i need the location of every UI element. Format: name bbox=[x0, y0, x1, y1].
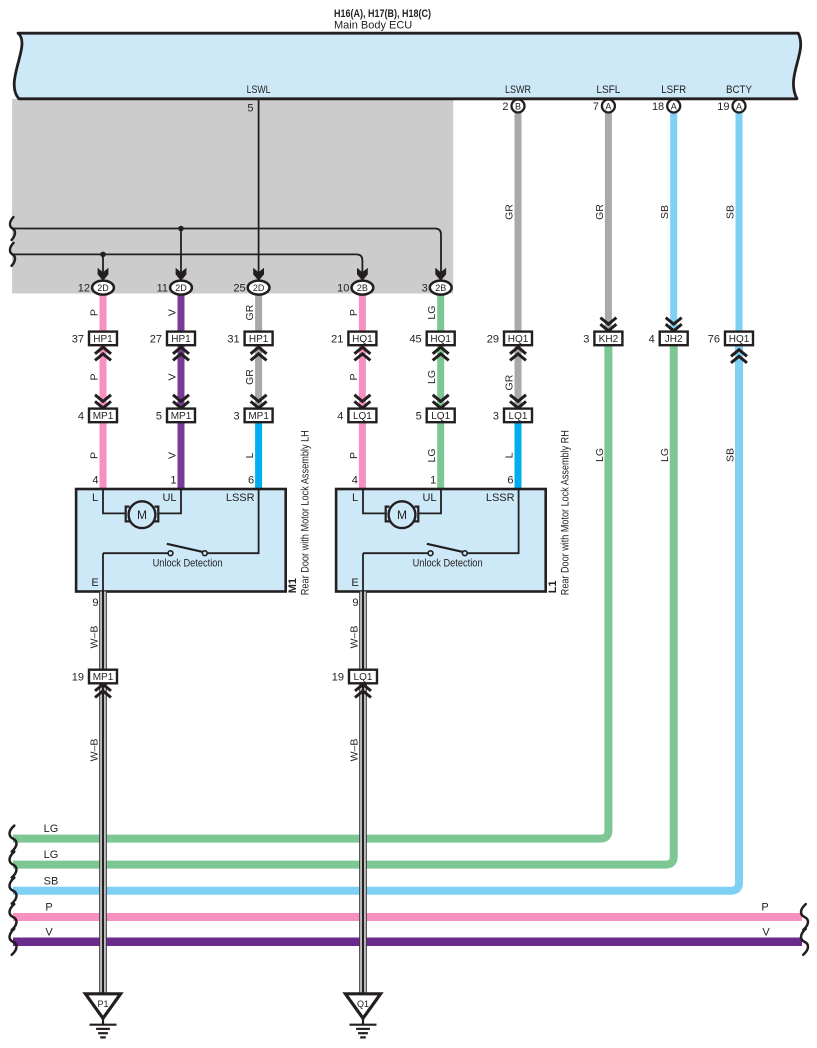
svg-text:Rear Door with Motor Lock Asse: Rear Door with Motor Lock Assembly LH bbox=[300, 430, 312, 595]
svg-text:HQ1: HQ1 bbox=[508, 334, 529, 345]
ground P1 bbox=[85, 994, 120, 1019]
wire GR LSFL bbox=[605, 110, 612, 332]
svg-text:Unlock Detection: Unlock Detection bbox=[413, 558, 483, 570]
wire L LSWR seg3 bbox=[515, 422, 522, 489]
svg-text:29: 29 bbox=[487, 333, 499, 345]
svg-text:A: A bbox=[605, 101, 611, 111]
svg-text:5: 5 bbox=[247, 103, 253, 115]
svg-text:HQ1: HQ1 bbox=[430, 334, 451, 345]
svg-text:2D: 2D bbox=[97, 283, 109, 293]
rear door with motor lock assembly RH (L1) bbox=[336, 489, 546, 592]
svg-text:GR: GR bbox=[594, 204, 606, 220]
svg-text:21: 21 bbox=[331, 333, 343, 345]
LSWL lead bbox=[258, 99, 260, 273]
svg-text:V: V bbox=[762, 926, 770, 938]
connector 45 HQ1 bbox=[427, 332, 455, 346]
arrow into oval x=258.6 bbox=[253, 268, 264, 281]
connector 5 LQ1 bbox=[433, 395, 449, 408]
svg-text:2B: 2B bbox=[435, 283, 446, 293]
svg-text:L: L bbox=[92, 492, 98, 504]
pin circle 2-B LSWR bbox=[512, 100, 525, 113]
svg-text:LG: LG bbox=[594, 448, 606, 462]
svg-text:19: 19 bbox=[717, 101, 729, 113]
svg-text:A: A bbox=[736, 101, 742, 111]
wire GR col3 seg1 bbox=[255, 291, 262, 332]
svg-text:B: B bbox=[515, 101, 521, 111]
svg-text:MP1: MP1 bbox=[248, 411, 269, 422]
svg-text:19: 19 bbox=[72, 672, 84, 684]
svg-text:P: P bbox=[348, 309, 360, 316]
svg-text:Main Body ECU: Main Body ECU bbox=[334, 20, 412, 32]
wire LG col5 seg1 bbox=[437, 291, 444, 332]
connector 76 HQ1 bbox=[725, 332, 753, 346]
W-B wire RH upper bbox=[359, 592, 366, 670]
torn mark left y=864.6 bbox=[10, 852, 17, 878]
connector 31 HP1 bbox=[245, 332, 273, 346]
torn mark right P bbox=[801, 904, 808, 930]
gray internal-harness region bbox=[12, 99, 453, 294]
svg-text:5: 5 bbox=[156, 410, 162, 422]
svg-text:LQ1: LQ1 bbox=[431, 411, 450, 422]
svg-text:LG: LG bbox=[426, 370, 438, 384]
connector 19 LQ1 bbox=[349, 670, 377, 684]
bus line 1 bbox=[13, 229, 441, 274]
svg-text:Unlock Detection: Unlock Detection bbox=[153, 558, 223, 570]
svg-text:L: L bbox=[504, 452, 516, 458]
svg-text:H16(A), H17(B), H18(C): H16(A), H17(B), H18(C) bbox=[334, 8, 431, 20]
svg-text:GR: GR bbox=[244, 304, 256, 320]
svg-text:Rear Door with Motor Lock Asse: Rear Door with Motor Lock Assembly RH bbox=[560, 430, 572, 595]
svg-text:LG: LG bbox=[426, 306, 438, 320]
wire SB BCTY seg1 bbox=[736, 110, 743, 332]
svg-text:37: 37 bbox=[72, 333, 84, 345]
svg-text:P: P bbox=[761, 902, 768, 914]
torn mark left y=890.7 bbox=[10, 878, 17, 904]
svg-text:UL: UL bbox=[422, 492, 436, 504]
wire P col4 seg2 bbox=[359, 345, 366, 408]
svg-text:2D: 2D bbox=[175, 283, 187, 293]
svg-text:P: P bbox=[348, 373, 360, 380]
svg-text:76: 76 bbox=[708, 333, 720, 345]
svg-text:LG: LG bbox=[44, 823, 59, 835]
torn mark right V bbox=[801, 929, 808, 955]
svg-text:BCTY: BCTY bbox=[726, 84, 753, 96]
connector oval 11-2D bbox=[170, 281, 192, 295]
wire P col4 seg1 bbox=[359, 291, 366, 332]
svg-text:P: P bbox=[89, 373, 101, 380]
pin circle 7-A LSFL bbox=[602, 100, 615, 113]
svg-text:4: 4 bbox=[78, 410, 84, 422]
wire LG col5 seg3 bbox=[437, 422, 444, 489]
bus line 2 bbox=[13, 254, 362, 273]
connector 5 MP1 bbox=[173, 395, 189, 408]
svg-text:W–B: W–B bbox=[89, 626, 101, 649]
svg-text:6: 6 bbox=[507, 474, 513, 486]
svg-text:SB: SB bbox=[659, 205, 671, 219]
svg-text:HP1: HP1 bbox=[171, 334, 191, 345]
svg-text:1: 1 bbox=[430, 474, 436, 486]
svg-text:19: 19 bbox=[332, 672, 344, 684]
wire LG from JH2 to left edge bbox=[13, 345, 674, 864]
svg-text:3: 3 bbox=[493, 410, 499, 422]
connector oval 10-2B bbox=[352, 281, 374, 295]
svg-text:L1: L1 bbox=[547, 580, 559, 593]
svg-text:12: 12 bbox=[78, 282, 90, 294]
connector 37 HP1 bbox=[89, 332, 117, 346]
svg-text:LG: LG bbox=[659, 448, 671, 462]
wire V col2 seg1 bbox=[178, 291, 185, 332]
svg-text:LG: LG bbox=[426, 448, 438, 462]
wire P col4 seg3 bbox=[359, 422, 366, 489]
svg-text:V: V bbox=[45, 926, 53, 938]
rear door with motor lock assembly LH (M1) bbox=[76, 489, 286, 592]
torn mark line 2 bbox=[10, 243, 15, 266]
wire GR LSWR seg1 bbox=[515, 110, 522, 332]
svg-text:GR: GR bbox=[244, 369, 256, 385]
svg-text:Q1: Q1 bbox=[357, 999, 369, 1009]
connector oval 3-2B bbox=[430, 281, 452, 295]
svg-text:9: 9 bbox=[352, 597, 358, 609]
connector 4 LQ1 bbox=[354, 395, 370, 408]
svg-text:LSSR: LSSR bbox=[226, 492, 255, 504]
ground Q1 bbox=[345, 994, 380, 1019]
svg-text:P: P bbox=[348, 452, 360, 459]
svg-text:LSFR: LSFR bbox=[661, 84, 686, 96]
torn mark left y=838.6 bbox=[10, 826, 17, 852]
wire GR LSWR seg2 bbox=[515, 345, 522, 408]
svg-text:W–B: W–B bbox=[349, 626, 361, 649]
drop to 11-2D bbox=[180, 229, 182, 274]
svg-text:HP1: HP1 bbox=[249, 334, 269, 345]
pin circle 19-A BCTY bbox=[733, 100, 746, 113]
svg-text:LQ1: LQ1 bbox=[354, 672, 373, 683]
W-B wire LH lower bbox=[99, 683, 106, 994]
ECU H16/H17/H18 Main Body ECU band bbox=[14, 33, 801, 99]
connector 3 KH2 bbox=[600, 318, 616, 331]
pin circle 18-A LSFR bbox=[667, 100, 680, 113]
junction on line 2 bbox=[100, 252, 106, 258]
svg-text:LSWL: LSWL bbox=[247, 84, 271, 96]
svg-text:27: 27 bbox=[150, 333, 162, 345]
svg-text:4: 4 bbox=[649, 333, 655, 345]
svg-text:4: 4 bbox=[337, 410, 343, 422]
svg-text:LSFL: LSFL bbox=[596, 84, 620, 96]
svg-text:M: M bbox=[397, 508, 407, 522]
connector 4 JH2 bbox=[666, 318, 682, 331]
connector 3 LQ1 bbox=[510, 395, 526, 408]
wire P bottom bbox=[13, 913, 802, 921]
svg-text:UL: UL bbox=[162, 492, 176, 504]
svg-text:3: 3 bbox=[233, 410, 239, 422]
svg-text:V: V bbox=[167, 452, 179, 459]
wire LG col5 seg2 bbox=[437, 345, 444, 408]
connector 4 MP1 bbox=[95, 395, 111, 408]
svg-text:HQ1: HQ1 bbox=[729, 334, 750, 345]
svg-text:45: 45 bbox=[409, 333, 421, 345]
svg-text:V: V bbox=[167, 309, 179, 316]
wire V bottom bbox=[13, 938, 802, 947]
arrow into oval x=362.4 bbox=[357, 268, 368, 281]
arrow into oval x=181 bbox=[176, 268, 187, 281]
svg-text:P: P bbox=[89, 309, 101, 316]
wire V col2 seg3 bbox=[178, 422, 185, 489]
svg-text:10: 10 bbox=[337, 282, 349, 294]
svg-text:L: L bbox=[352, 492, 358, 504]
torn mark left y=941.8 bbox=[10, 929, 17, 955]
svg-text:SB: SB bbox=[44, 875, 59, 887]
svg-text:5: 5 bbox=[416, 410, 422, 422]
svg-text:3: 3 bbox=[583, 333, 589, 345]
connector 3 MP1 bbox=[251, 395, 267, 408]
W-B wire LH upper bbox=[99, 592, 106, 670]
connector oval 25-2D bbox=[248, 281, 270, 295]
svg-text:4: 4 bbox=[92, 474, 98, 486]
svg-text:P: P bbox=[45, 902, 52, 914]
wire P col1 seg2 bbox=[100, 345, 107, 408]
arrow into oval x=103 bbox=[98, 268, 109, 281]
svg-text:W–B: W–B bbox=[89, 739, 101, 762]
wire L col3 seg3 bbox=[255, 422, 262, 489]
svg-text:3: 3 bbox=[422, 282, 428, 294]
connector 27 HP1 bbox=[167, 332, 195, 346]
svg-text:25: 25 bbox=[233, 282, 245, 294]
svg-text:A: A bbox=[671, 101, 677, 111]
svg-text:9: 9 bbox=[92, 597, 98, 609]
svg-text:2B: 2B bbox=[357, 283, 368, 293]
svg-text:HP1: HP1 bbox=[93, 334, 113, 345]
svg-text:L: L bbox=[244, 452, 256, 458]
svg-text:31: 31 bbox=[227, 333, 239, 345]
connector 19 MP1 bbox=[89, 670, 117, 684]
svg-text:7: 7 bbox=[593, 101, 599, 113]
svg-text:6: 6 bbox=[248, 474, 254, 486]
svg-text:GR: GR bbox=[504, 374, 516, 390]
svg-text:2: 2 bbox=[502, 101, 508, 113]
svg-text:LG: LG bbox=[44, 849, 59, 861]
svg-text:KH2: KH2 bbox=[599, 334, 619, 345]
arrow into oval x=440.7 bbox=[435, 268, 446, 281]
W-B wire RH lower bbox=[359, 683, 366, 994]
svg-text:W–B: W–B bbox=[349, 739, 361, 762]
svg-text:JH2: JH2 bbox=[665, 334, 683, 345]
svg-text:SB: SB bbox=[725, 448, 737, 462]
junction on line 1 bbox=[178, 226, 184, 232]
torn mark line 1 bbox=[10, 217, 15, 240]
svg-text:SB: SB bbox=[725, 205, 737, 219]
svg-text:V: V bbox=[167, 373, 179, 380]
svg-text:4: 4 bbox=[352, 474, 358, 486]
torn mark left y=917 bbox=[10, 904, 17, 930]
connector oval 12-2D bbox=[92, 281, 114, 295]
svg-text:MP1: MP1 bbox=[171, 411, 192, 422]
svg-text:18: 18 bbox=[652, 101, 664, 113]
svg-text:P: P bbox=[89, 452, 101, 459]
svg-text:MP1: MP1 bbox=[93, 672, 114, 683]
svg-text:MP1: MP1 bbox=[93, 411, 114, 422]
connector 21 HQ1 bbox=[348, 332, 376, 346]
svg-text:LQ1: LQ1 bbox=[509, 411, 528, 422]
wire SB LSFR bbox=[670, 110, 677, 332]
wire GR col3 seg2 bbox=[255, 345, 262, 408]
svg-text:2D: 2D bbox=[253, 283, 265, 293]
svg-text:M: M bbox=[137, 508, 147, 522]
drop to 12-2D bbox=[102, 254, 104, 273]
svg-text:LSWR: LSWR bbox=[505, 84, 531, 96]
svg-text:M1: M1 bbox=[287, 578, 299, 593]
wire P col1 seg1 bbox=[100, 291, 107, 332]
svg-text:11: 11 bbox=[157, 282, 168, 294]
svg-text:LSSR: LSSR bbox=[486, 492, 515, 504]
svg-text:LQ1: LQ1 bbox=[353, 411, 372, 422]
svg-text:E: E bbox=[351, 577, 358, 589]
svg-text:HQ1: HQ1 bbox=[352, 334, 373, 345]
svg-text:1: 1 bbox=[170, 474, 176, 486]
svg-text:P1: P1 bbox=[97, 999, 108, 1009]
svg-text:E: E bbox=[91, 577, 98, 589]
wire P col1 seg3 bbox=[100, 422, 107, 489]
wire LG from KH2 to left edge bbox=[13, 345, 608, 838]
wire V col2 seg2 bbox=[178, 345, 185, 408]
wire SB from HQ1 to left edge bbox=[13, 345, 739, 891]
svg-text:GR: GR bbox=[504, 204, 516, 220]
connector 29 HQ1 bbox=[504, 332, 532, 346]
